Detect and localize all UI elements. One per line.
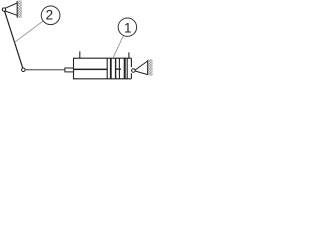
callout balloon 2: [41, 6, 60, 25]
piston line 1: [106, 58, 108, 79]
svg-text:2: 2: [46, 8, 54, 23]
port stem right: [128, 52, 130, 58]
cylinder body C1: [74, 58, 132, 79]
bracket triangle left: [5, 3, 17, 15]
callout balloon 1: [118, 18, 136, 36]
end cap line 1: [124, 58, 126, 79]
leader line callout 1: [113, 36, 124, 59]
pin joint left pivot: [2, 8, 5, 11]
wall line right: [147, 60, 149, 75]
rod coupler: [65, 68, 74, 72]
port stem left: [79, 51, 81, 58]
end cap line 2: [126, 58, 128, 79]
svg-text:1: 1: [124, 21, 132, 36]
pin joint rod clevis: [22, 68, 26, 72]
piston rod inside: [74, 69, 108, 71]
wall hatch right: [148, 59, 152, 76]
wall hatch left: [18, 1, 22, 18]
rod stub right: [116, 69, 121, 70]
wall line left: [16, 1, 18, 18]
leader line callout 2: [15, 21, 43, 42]
piston line 2: [110, 58, 112, 79]
gland line 1: [115, 58, 117, 79]
gland line 2: [118, 58, 120, 79]
pin joint right clevis: [132, 69, 136, 73]
wire rod link line: [25, 69, 65, 71]
link lever: [5, 11, 23, 68]
bracket triangle right: [135, 61, 148, 75]
